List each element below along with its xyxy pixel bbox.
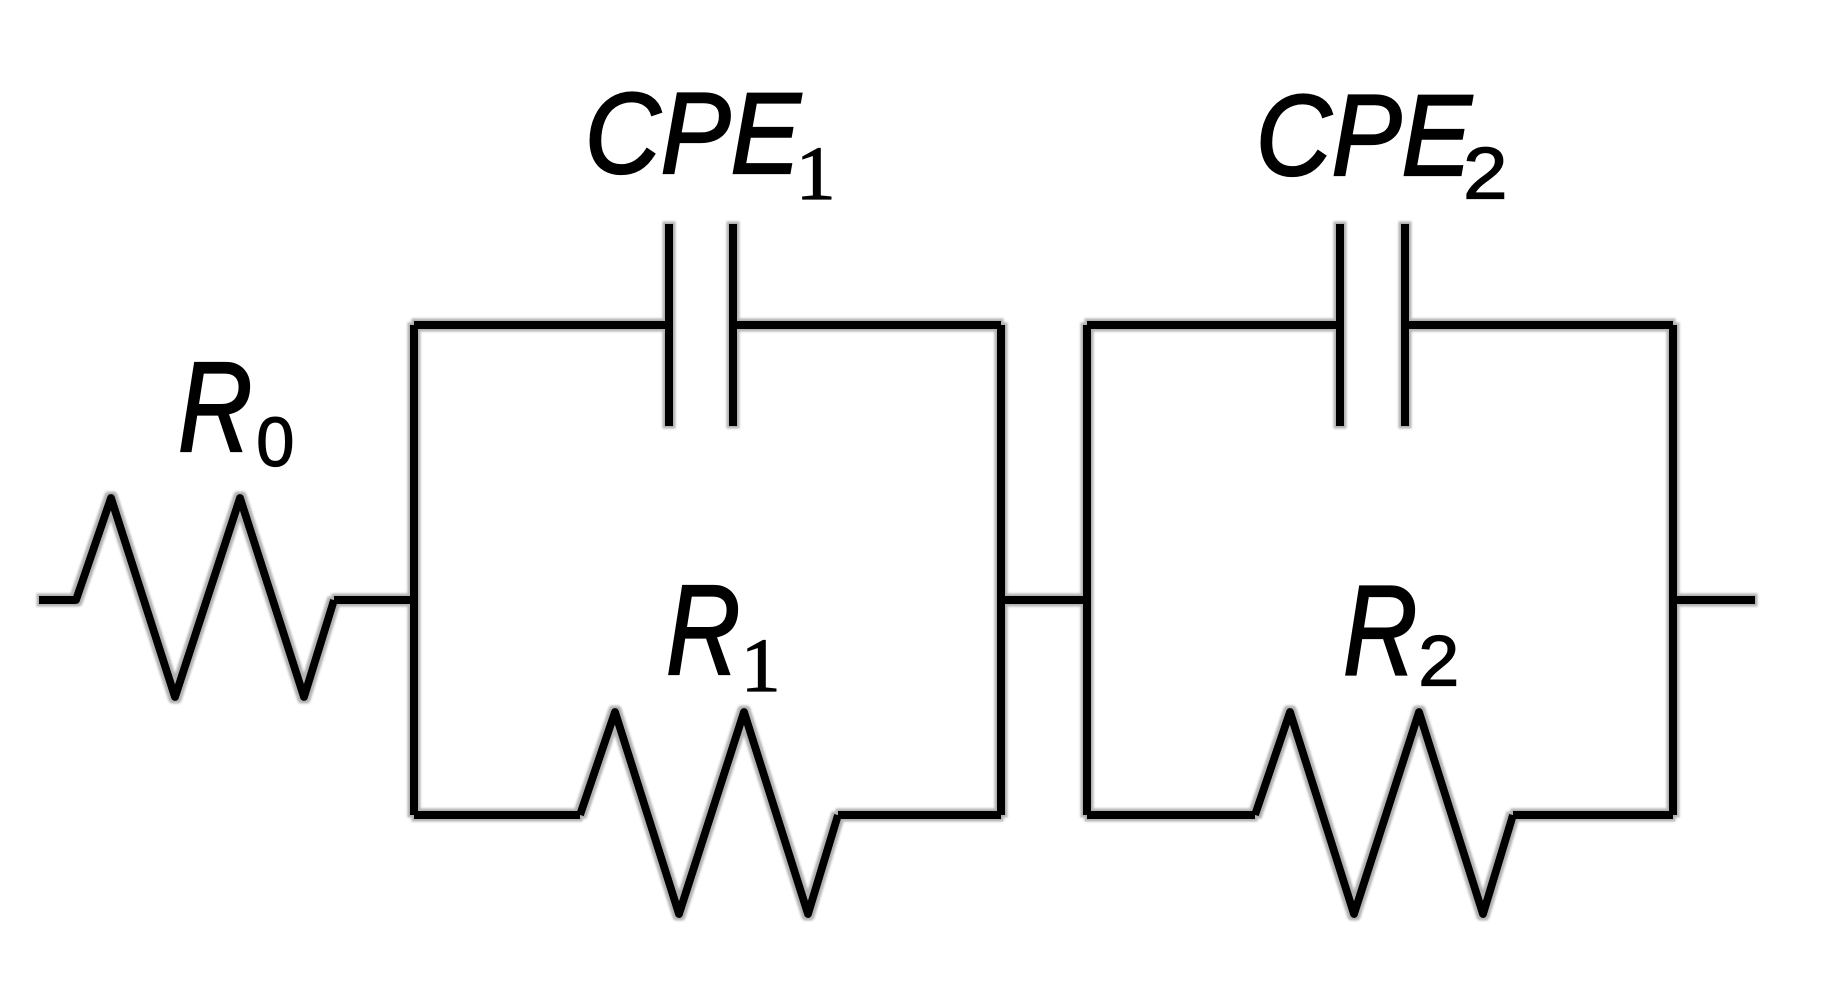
wire: block 2 top edge, left of CPE2 — [1087, 321, 1340, 329]
svg-text:R: R — [666, 558, 740, 701]
svg-text:R: R — [178, 335, 252, 478]
wire: block 1 top edge, right of CPE1 — [733, 321, 1001, 329]
wire: block 2 left edge — [1083, 325, 1091, 815]
resistor R0 — [39, 498, 334, 697]
svg-text:CPE: CPE — [585, 70, 802, 198]
wire: R0 to block 1 — [334, 596, 414, 604]
svg-text:1: 1 — [796, 132, 836, 216]
svg-text:2: 2 — [1418, 622, 1459, 701]
resistor R1 — [580, 712, 838, 914]
capacitor CPE1 right plate — [729, 224, 737, 426]
wire: block 1 right edge — [997, 325, 1005, 815]
wire: block 2 right edge — [1669, 325, 1677, 815]
wire: block 1 bottom edge, right of R1 — [838, 811, 1001, 819]
svg-text:0: 0 — [256, 402, 294, 481]
capacitor CPE1 left plate — [665, 224, 673, 426]
wire: block 2 bottom edge, left of R2 — [1087, 811, 1255, 819]
wire: node between block 1 and block 2 — [1001, 596, 1087, 604]
svg-text:CPE: CPE — [1256, 72, 1473, 200]
svg-text:R: R — [1343, 559, 1417, 702]
svg-text:2: 2 — [1463, 134, 1508, 215]
svg-text:1: 1 — [741, 624, 781, 708]
wire: block 2 bottom edge, right of R2 — [1513, 811, 1673, 819]
wire: block 1 bottom edge, left of R1 — [414, 811, 580, 819]
capacitor CPE2 left plate — [1336, 224, 1344, 426]
wire: block 2 top edge, right of CPE2 — [1405, 321, 1673, 329]
wire: right lead — [1673, 596, 1755, 604]
wire: block 1 left edge — [410, 325, 418, 815]
wire: block 1 top edge, left of CPE1 — [414, 321, 669, 329]
capacitor CPE2 right plate — [1401, 224, 1409, 426]
resistor R2 — [1255, 712, 1513, 914]
